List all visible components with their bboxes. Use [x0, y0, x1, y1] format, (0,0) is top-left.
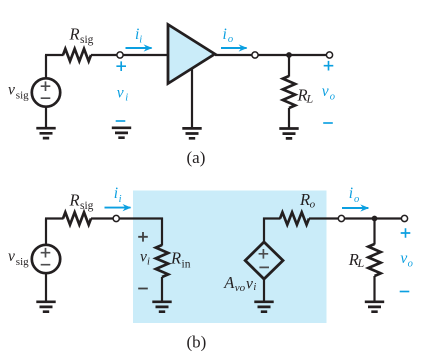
wire: R_L to ground (b)	[373, 276, 375, 302]
wire: vsig bottom lead (b)	[45, 273, 47, 301]
svg-text:v: v	[117, 85, 124, 102]
wire: vsig top lead (b)	[45, 219, 47, 246]
ground: under v_sig (a)	[36, 128, 55, 138]
wire: vsig to Rsig (a)	[45, 54, 64, 56]
resistor R_in (b)	[156, 245, 168, 277]
svg-text:sig: sig	[16, 90, 29, 102]
wire: R_o to output node (b)	[309, 217, 338, 219]
ground: v_i reference bars (a)	[112, 128, 131, 138]
svg-text:v: v	[400, 250, 407, 267]
ground: under diamond (b)	[254, 302, 273, 312]
wire: diamond to R_o (b)	[263, 217, 281, 219]
label + of v_o (a)	[324, 61, 334, 71]
wire: junction to R_L (a)	[288, 55, 290, 77]
ground: under R_in (b)	[152, 302, 171, 312]
svg-text:sig: sig	[80, 34, 94, 46]
wire: diamond top lead (b)	[263, 218, 265, 243]
svg-text:R: R	[170, 249, 181, 268]
svg-text:i: i	[349, 185, 353, 202]
label + of v_o (b)	[401, 228, 411, 238]
svg-text:i: i	[125, 93, 128, 104]
node: input terminal open circle (a)	[117, 52, 123, 58]
voltage source v_sig (a)	[32, 78, 60, 106]
svg-text:v: v	[8, 248, 15, 265]
svg-text:o: o	[310, 199, 316, 211]
ground: under amplifier (a)	[182, 128, 201, 138]
label - of v_i (b)	[138, 288, 148, 290]
svg-text:o: o	[330, 92, 335, 103]
svg-text:R: R	[299, 190, 310, 209]
node: amp output open circle (a)	[252, 52, 258, 58]
svg-text:(a): (a)	[187, 148, 206, 167]
svg-text:i: i	[223, 26, 227, 43]
wire: Rsig to input node (b)	[91, 217, 113, 219]
junction: R_L tap (b)	[372, 216, 378, 222]
svg-text:in: in	[182, 258, 191, 270]
wire: output node to terminal (b)	[345, 217, 402, 219]
svg-text:o: o	[228, 34, 233, 45]
svg-text:sig: sig	[16, 256, 29, 268]
svg-text:(b): (b)	[187, 333, 207, 352]
resistor R_sig (a)	[63, 49, 91, 61]
dependent source diamond A_vo*v_i (b)	[245, 242, 283, 279]
label + of v_i (a)	[116, 61, 126, 71]
current arrow i_o (b)	[342, 207, 368, 209]
svg-text:L: L	[306, 92, 314, 106]
wire: amplifier ground lead (a)	[191, 68, 193, 128]
svg-text:v: v	[322, 83, 329, 100]
junction: R_L tap (a)	[286, 52, 292, 58]
svg-text:vo: vo	[235, 282, 246, 294]
resistor R_L (a)	[283, 76, 295, 108]
svg-text:i: i	[114, 185, 118, 202]
current arrow i_i (a)	[126, 47, 152, 49]
node: output open circle (b)	[338, 215, 344, 221]
svg-text:i: i	[147, 256, 150, 267]
resistor R_L (b)	[368, 244, 380, 276]
wire: vsig bottom lead (a)	[45, 107, 47, 128]
svg-text:i: i	[253, 282, 256, 293]
svg-text:sig: sig	[80, 200, 94, 212]
resistor R_o (b)	[280, 212, 309, 224]
svg-text:v: v	[140, 249, 147, 266]
voltage source v_sig (b)	[32, 245, 60, 273]
label - of v_o (b)	[400, 291, 410, 293]
label - of v_i (a)	[116, 120, 126, 122]
wire: input node to amplifier (a)	[123, 54, 167, 56]
wire: output node to terminal (a)	[258, 54, 326, 56]
label - of v_o (a)	[323, 122, 333, 124]
svg-text:v: v	[8, 82, 15, 99]
svg-text:R: R	[69, 191, 80, 210]
svg-text:o: o	[408, 259, 413, 270]
svg-text:R: R	[69, 24, 80, 43]
wire: vsig to Rsig (b)	[45, 217, 64, 219]
wire: R_in top lead (b)	[161, 218, 163, 246]
wire: R_in to ground (b)	[161, 277, 163, 302]
svg-text:o: o	[354, 194, 359, 205]
op-amp amplifier triangle U1 (a)	[168, 25, 215, 84]
wire: input node into box to R_in (b)	[120, 217, 164, 219]
current arrow i_o (a)	[221, 47, 247, 49]
current arrow i_i (b)	[105, 207, 131, 209]
ground: under R_L (a)	[279, 129, 298, 139]
ground: under R_L (b)	[365, 302, 384, 312]
terminal: output open circle (a)	[326, 52, 332, 58]
wire: amplifier output to node (a)	[215, 54, 252, 56]
label + of v_i (b)	[138, 232, 148, 242]
wire: vsig top lead (a)	[45, 55, 47, 79]
resistor R_sig (b)	[63, 212, 91, 224]
wire: Rsig to input node (a)	[91, 54, 117, 56]
wire: diamond bottom lead to ground (b)	[263, 279, 265, 302]
wire: R_L to ground (a)	[288, 108, 290, 128]
svg-text:i: i	[139, 34, 142, 45]
node: input terminal open circle (b)	[113, 215, 119, 221]
shaded amplifier-model box (b)	[133, 191, 327, 324]
svg-text:L: L	[357, 256, 365, 270]
svg-text:A: A	[223, 273, 235, 292]
ground: under v_sig (b)	[36, 302, 55, 312]
svg-text:i: i	[119, 194, 122, 205]
wire: junction to R_L (b)	[373, 219, 375, 245]
terminal: output open circle right (b)	[401, 215, 407, 221]
svg-text:v: v	[246, 276, 253, 293]
